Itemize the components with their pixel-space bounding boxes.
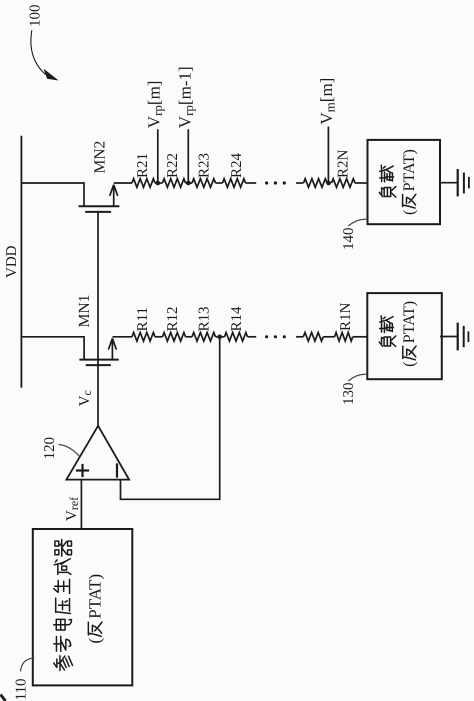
ground symbol row 1 wire [440, 182, 458, 184]
svg-text:R11: R11 [135, 307, 151, 331]
label R1N [338, 302, 354, 331]
net label VDD [4, 245, 20, 278]
transistor MN1 source wire with arrow [108, 337, 132, 360]
transistor MN2 gate plate [85, 211, 111, 213]
svg-text:Vm[m]: Vm[m] [317, 78, 338, 125]
ref gen 110 text char dian [54, 619, 72, 630]
wire after R24 [246, 182, 257, 184]
leader for 120 [59, 445, 80, 457]
resistor R22 [163, 179, 186, 188]
transistor MN1 gate plate [86, 364, 111, 366]
svg-text:R23: R23 [196, 153, 212, 178]
svg-text:R13: R13 [196, 306, 212, 331]
svg-text:R1N: R1N [338, 302, 354, 331]
resistor R2N [332, 179, 356, 188]
label 110 [14, 679, 30, 701]
op-amp plus sign [76, 464, 89, 477]
svg-text:R21: R21 [135, 153, 151, 178]
resistor segment before R1N [303, 333, 323, 342]
load 130 text line1 char 负 [379, 336, 396, 347]
load 130 text line2 (反PTAT) [401, 301, 418, 367]
label R13 [196, 306, 212, 331]
label MN2 [91, 141, 108, 174]
label R23 [196, 153, 212, 178]
resistor segment before Vm[m] tap [304, 179, 328, 188]
wire Vrp[m] tap [157, 129, 159, 183]
resistor R21 [132, 179, 155, 188]
svg-text:PTAT): PTAT) [86, 574, 105, 619]
net label Vc [77, 390, 94, 406]
ref gen 110 text line2 (反PTAT) [86, 574, 105, 644]
reference voltage generator 110 box [33, 529, 133, 685]
svg-text:120: 120 [42, 437, 58, 460]
label R24 [229, 152, 245, 178]
wire R1N to load [353, 336, 368, 338]
net label Vm[m] [317, 78, 338, 125]
leader for 130 [348, 374, 367, 381]
wire common gate Vc [97, 212, 99, 426]
wire R11-R12 [155, 336, 163, 338]
node Vrp[m] junction dot [155, 181, 160, 186]
svg-text:(: ( [86, 638, 105, 644]
ellipsis dots row 1 [265, 181, 286, 184]
label 120 [42, 437, 58, 460]
op-amp minus sign [116, 463, 118, 477]
wire R21-R22 [155, 182, 163, 184]
node Vrp[m-1] junction dot [186, 181, 191, 186]
wire mid R1N [323, 336, 334, 338]
svg-text:Vrp[m]: Vrp[m] [144, 81, 165, 129]
load block 130 box [367, 293, 442, 379]
scan artifact bottom-left corner [1, 695, 6, 701]
wire Vrp[m-1] tap [187, 129, 189, 183]
label R22 [165, 153, 181, 178]
svg-text:R12: R12 [165, 306, 181, 331]
svg-text:140: 140 [341, 228, 357, 251]
svg-text:R2N: R2N [336, 149, 352, 178]
wire before R2N chain [296, 182, 303, 184]
power rail VDD wire [20, 136, 22, 388]
transistor MN2 channel bar [79, 205, 120, 207]
load 130 text line1 char 载 [380, 316, 394, 333]
ground symbol row 1 bars [458, 169, 469, 196]
svg-text:130: 130 [341, 383, 357, 406]
svg-text:110: 110 [14, 679, 30, 701]
ground symbol row 2 bars [458, 323, 469, 351]
net label Vref [64, 497, 81, 521]
label R12 [165, 306, 181, 331]
load 140 text line1 char 负 [379, 186, 396, 197]
svg-text:VDD: VDD [4, 245, 20, 278]
svg-text:(: ( [401, 210, 418, 215]
label 130 [341, 383, 357, 406]
svg-text:Vref: Vref [64, 497, 81, 521]
ref gen 110 text char cheng [54, 559, 71, 575]
ref gen 110 text char ya [56, 598, 71, 613]
wire after R14 [248, 336, 257, 338]
net label Vrp[m] [144, 81, 165, 129]
wire op-amp plus input Vref [80, 480, 82, 529]
wire R22-R23 [186, 182, 193, 184]
svg-text:100: 100 [28, 5, 44, 28]
wire R13-R14 [216, 336, 225, 338]
label R11 [135, 307, 151, 331]
transistor MN1 drain wire [21, 337, 84, 360]
resistor R14 [225, 333, 248, 342]
ellipsis dots row 2 [265, 335, 286, 338]
net label Vrp[m-1] [175, 66, 196, 128]
resistor R12 [163, 333, 186, 342]
node Vm[m] junction dot [326, 181, 331, 186]
resistor R1N [335, 333, 353, 342]
wire R23-R24 [216, 182, 223, 184]
svg-text:MN1: MN1 [76, 295, 93, 328]
resistor R23 [192, 179, 216, 188]
resistor R11 [132, 333, 155, 342]
label MN1 [76, 295, 93, 328]
wire before R1N chain [296, 336, 303, 338]
svg-text:(: ( [401, 361, 418, 366]
svg-text:Vrp[m-1]: Vrp[m-1] [175, 66, 196, 128]
ref gen 110 text char qi [55, 540, 72, 557]
resistor R13 [192, 333, 216, 342]
label R2N [336, 149, 352, 178]
ref gen 110 text char kao [54, 636, 71, 651]
ground symbol row 2 wire [440, 336, 458, 338]
feedback wire from R13-R14 node [121, 337, 220, 500]
svg-text:PTAT): PTAT) [401, 301, 418, 343]
transistor MN2 source wire with arrow [110, 183, 132, 206]
wire Vm[m] tap [327, 127, 329, 184]
label R14 [229, 306, 245, 332]
leader for 140 [348, 219, 367, 226]
svg-text:MN2: MN2 [91, 141, 108, 174]
label R21 [135, 153, 151, 178]
ref gen 110 text char can [54, 656, 73, 671]
svg-text:R22: R22 [165, 153, 181, 178]
label 140 [341, 228, 357, 251]
leader for 110 [21, 658, 35, 672]
load 140 text line1 char 载 [380, 165, 394, 182]
svg-text:Vc: Vc [77, 390, 94, 406]
op-amp U120 triangle [66, 426, 129, 480]
node feedback junction dot [217, 334, 222, 339]
wire R2N to load [355, 182, 368, 184]
svg-text:PTAT): PTAT) [401, 149, 418, 191]
ref gen 110 text char sheng [54, 579, 70, 593]
resistor R24 [223, 179, 246, 188]
load 140 text line2 (反PTAT) [401, 149, 418, 215]
figure label 100 [28, 5, 44, 28]
svg-text:R14: R14 [229, 306, 245, 332]
wire R12-R13 [186, 336, 193, 338]
transistor MN1 channel bar [79, 359, 118, 361]
svg-text:R24: R24 [229, 152, 245, 178]
load block 140 box [368, 140, 441, 224]
leader arrow for 100 [31, 30, 59, 80]
transistor MN2 drain wire [21, 183, 84, 206]
